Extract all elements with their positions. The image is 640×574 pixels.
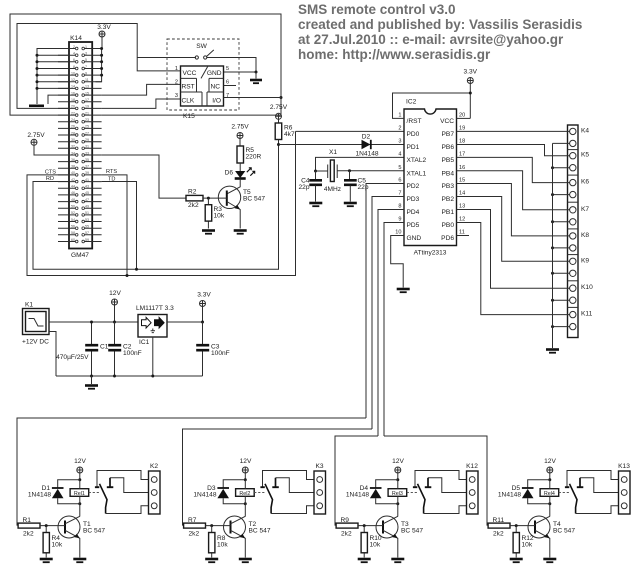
capacitor C1 470uF bbox=[56, 322, 109, 376]
svg-text:50: 50 bbox=[71, 205, 75, 209]
wire R6 down to PD1 row bbox=[278, 140, 280, 145]
svg-text:K13: K13 bbox=[618, 463, 630, 470]
svg-text:I/O: I/O bbox=[212, 98, 221, 105]
svg-text:51: 51 bbox=[85, 211, 89, 215]
connector strip K4-K11 bbox=[568, 125, 579, 338]
connector K10 bbox=[457, 210, 570, 289]
svg-text:11: 11 bbox=[85, 78, 89, 82]
wire relay feed block4 bbox=[384, 436, 487, 526]
svg-text:12V: 12V bbox=[109, 290, 121, 297]
svg-text:12V: 12V bbox=[544, 458, 556, 465]
diode D3 1N4148 (flyback) bbox=[223, 480, 245, 504]
svg-text:3: 3 bbox=[175, 93, 178, 99]
svg-text:K15: K15 bbox=[183, 113, 195, 120]
svg-text:R1: R1 bbox=[23, 517, 32, 524]
svg-text:PD5: PD5 bbox=[407, 222, 420, 229]
node pin1 bbox=[100, 47, 103, 50]
svg-text:CTS: CTS bbox=[45, 170, 56, 176]
svg-text:BC 547: BC 547 bbox=[553, 528, 575, 535]
wire XTAL1 to X1 right bbox=[337, 170, 404, 172]
svg-text:5: 5 bbox=[398, 165, 401, 171]
resistor R5 220R bbox=[237, 146, 262, 163]
resistor R1 2k2 bbox=[18, 523, 40, 528]
svg-text:14: 14 bbox=[71, 85, 75, 89]
connector K8 bbox=[457, 184, 570, 236]
svg-text:44: 44 bbox=[71, 185, 75, 189]
relay coil Rel1 bbox=[70, 489, 89, 497]
svg-text:21: 21 bbox=[85, 111, 89, 115]
svg-text:32: 32 bbox=[71, 145, 75, 149]
wire pin33 to R2 bbox=[102, 155, 186, 198]
ground (T3 emitter) bbox=[391, 558, 404, 561]
svg-text:K14: K14 bbox=[70, 35, 82, 42]
svg-text:3.3V: 3.3V bbox=[197, 292, 211, 299]
svg-text:GND: GND bbox=[407, 235, 422, 242]
svg-text:at 27.Jul.2010 :: e-mail: avrs: at 27.Jul.2010 :: e-mail: avrsite@yahoo.… bbox=[298, 32, 564, 47]
node C2 bottom bbox=[113, 375, 116, 378]
svg-text:X1: X1 bbox=[329, 149, 337, 156]
svg-text:470µF/25V: 470µF/25V bbox=[56, 354, 89, 361]
node RTS joins loop bbox=[126, 274, 129, 277]
svg-text:K1: K1 bbox=[25, 302, 33, 309]
resistor R2 2k2 bbox=[186, 188, 203, 209]
transistor T3 BC 547 bbox=[376, 516, 398, 538]
svg-text:R7: R7 bbox=[188, 517, 197, 524]
svg-text:3.3V: 3.3V bbox=[97, 24, 111, 31]
svg-text:PB2: PB2 bbox=[442, 196, 455, 203]
power symbol 3.3V (IC2 VCC) bbox=[464, 69, 478, 119]
connector K11 bbox=[457, 223, 570, 315]
svg-text:2k2: 2k2 bbox=[189, 531, 200, 538]
wire NC stub bbox=[224, 85, 237, 87]
node X1 right / C5 bbox=[348, 169, 351, 172]
svg-text:K3: K3 bbox=[315, 463, 323, 470]
relay driver block K3 bbox=[184, 458, 326, 562]
svg-text:37: 37 bbox=[85, 165, 89, 169]
wire TD (pin41) right bbox=[102, 182, 137, 270]
svg-text:100nF: 100nF bbox=[123, 350, 142, 357]
wire K1 ground side bbox=[49, 332, 56, 377]
svg-text:K8: K8 bbox=[581, 232, 589, 239]
node pin3 bbox=[100, 54, 103, 57]
ground (C5) bbox=[344, 202, 357, 205]
capacitor C5 22p bbox=[344, 171, 369, 202]
switch SW bbox=[195, 43, 214, 59]
svg-text:14: 14 bbox=[459, 191, 465, 197]
svg-text:VCC: VCC bbox=[440, 118, 454, 125]
svg-text:23: 23 bbox=[85, 118, 89, 122]
svg-text:Rel2: Rel2 bbox=[239, 491, 250, 497]
svg-text:31: 31 bbox=[85, 145, 89, 149]
svg-text:K9: K9 bbox=[581, 257, 589, 264]
svg-text:2k2: 2k2 bbox=[493, 531, 504, 538]
ground (T4 emitter) bbox=[543, 558, 556, 561]
svg-text:100nF: 100nF bbox=[211, 350, 230, 357]
svg-text:Rel1: Rel1 bbox=[74, 491, 85, 497]
node X1 left / C4 bbox=[314, 170, 317, 173]
wire I/O pin7 to border bbox=[224, 97, 282, 99]
node 3.3V bbox=[469, 92, 472, 95]
svg-text:PB1: PB1 bbox=[442, 209, 455, 216]
svg-text:10k: 10k bbox=[522, 542, 533, 549]
svg-text:47: 47 bbox=[85, 198, 89, 202]
svg-text:36: 36 bbox=[71, 158, 75, 162]
crystal X1 4MHz bbox=[324, 149, 341, 193]
wire 3.3V to pin1 /RST bbox=[393, 93, 471, 118]
svg-text:Rel3: Rel3 bbox=[392, 491, 403, 497]
ground (IC2) bbox=[397, 288, 410, 291]
svg-text:NC: NC bbox=[210, 84, 220, 91]
svg-text:1N4148: 1N4148 bbox=[28, 491, 51, 498]
wire PD6 stub bbox=[457, 235, 470, 237]
diode D5 1N4148 (flyback) bbox=[528, 480, 550, 504]
transistor T2 BC 547 bbox=[224, 516, 246, 538]
svg-text:1N4148: 1N4148 bbox=[193, 491, 216, 498]
node pin7 bbox=[100, 67, 103, 70]
svg-text:D2: D2 bbox=[362, 134, 371, 141]
svg-text:PB0: PB0 bbox=[442, 222, 455, 229]
node pin12 bbox=[36, 80, 39, 83]
svg-text:LM1117T 3.3: LM1117T 3.3 bbox=[136, 305, 174, 312]
svg-text:1N4148: 1N4148 bbox=[346, 491, 369, 498]
svg-text:6: 6 bbox=[398, 178, 401, 184]
svg-text:RST: RST bbox=[182, 84, 195, 91]
power symbol 3.3V out bbox=[197, 292, 211, 323]
relay driver block K12 bbox=[336, 458, 478, 562]
svg-text:1: 1 bbox=[175, 66, 178, 72]
resistor R4 10k bbox=[45, 526, 47, 558]
resistor R8 10k bbox=[211, 526, 213, 558]
svg-text:3: 3 bbox=[398, 139, 401, 145]
svg-text:22p: 22p bbox=[358, 184, 369, 191]
svg-text:9: 9 bbox=[398, 217, 401, 223]
svg-text:29: 29 bbox=[85, 138, 89, 142]
relay driver block K13 bbox=[488, 458, 630, 562]
node I/O joins border bbox=[280, 96, 283, 99]
svg-text:BC 547: BC 547 bbox=[243, 196, 265, 203]
ground (R4) bbox=[40, 558, 53, 561]
resistor R9 2k2 bbox=[336, 523, 358, 528]
node GND bbox=[255, 71, 258, 74]
svg-text:15: 15 bbox=[459, 178, 465, 184]
wire CTS (pin40) left bbox=[27, 131, 296, 275]
svg-text:8: 8 bbox=[73, 65, 75, 69]
K15 inner box bbox=[181, 66, 224, 106]
ground (T5 emitter) bbox=[234, 229, 247, 232]
svg-text:43: 43 bbox=[85, 185, 89, 189]
node C1 top bbox=[90, 321, 93, 324]
svg-text:PB4: PB4 bbox=[442, 170, 455, 177]
svg-text:BC 547: BC 547 bbox=[83, 528, 105, 535]
svg-text:home: http://www.serasidis.gr: home: http://www.serasidis.gr bbox=[298, 47, 491, 62]
svg-text:12V: 12V bbox=[392, 458, 404, 465]
svg-text:7: 7 bbox=[226, 93, 229, 99]
svg-text:IC2: IC2 bbox=[406, 99, 417, 106]
wire PD4 to relay driver bbox=[378, 210, 404, 437]
svg-text:17: 17 bbox=[459, 152, 465, 158]
node 12V rail bbox=[113, 321, 116, 324]
svg-text:19: 19 bbox=[459, 126, 465, 132]
wire PD0 row bbox=[296, 130, 405, 132]
svg-text:16: 16 bbox=[71, 91, 75, 95]
svg-text:3.3V: 3.3V bbox=[464, 69, 478, 76]
svg-text:53: 53 bbox=[85, 218, 89, 222]
node pin14 bbox=[36, 87, 39, 90]
ground (K15) bbox=[255, 72, 257, 79]
svg-text:BC 547: BC 547 bbox=[249, 528, 271, 535]
wire K15 GND pin5 bbox=[224, 71, 257, 73]
capacitor C2 100nF bbox=[108, 322, 142, 376]
svg-text:K7: K7 bbox=[581, 206, 589, 213]
node pin6 bbox=[36, 60, 39, 63]
wire IC1 center pin to ground rail bbox=[152, 337, 154, 376]
resistor R11 2k2 bbox=[488, 523, 510, 528]
connector K1 +12V DC bbox=[22, 302, 49, 346]
svg-text:CLK: CLK bbox=[182, 98, 195, 105]
svg-text:K12: K12 bbox=[466, 463, 478, 470]
wire 3.3V bus on K14 pins 1-11 bbox=[96, 49, 102, 82]
svg-text:10k: 10k bbox=[370, 542, 381, 549]
svg-text:2.75V: 2.75V bbox=[27, 132, 45, 139]
resistor R3 10k bbox=[205, 198, 225, 228]
svg-text:4: 4 bbox=[398, 152, 401, 158]
wire regulator out bbox=[167, 321, 203, 323]
svg-text:56: 56 bbox=[71, 225, 75, 229]
diode D1 1N4148 (flyback) bbox=[58, 480, 80, 504]
svg-text:13: 13 bbox=[85, 85, 89, 89]
svg-text:5: 5 bbox=[226, 66, 229, 72]
svg-text:2.75V: 2.75V bbox=[231, 124, 249, 131]
connector K6 bbox=[457, 157, 570, 182]
svg-text:15: 15 bbox=[85, 91, 89, 95]
ground (T1 emitter) bbox=[73, 558, 86, 561]
svg-text:XTAL2: XTAL2 bbox=[407, 157, 427, 164]
svg-text:4MHz: 4MHz bbox=[324, 186, 341, 193]
wire VCC pin20 bbox=[457, 117, 471, 119]
ground (R12) bbox=[510, 558, 523, 561]
relay contact (K2) bbox=[89, 492, 100, 494]
svg-text:5: 5 bbox=[85, 58, 87, 62]
svg-text:10k: 10k bbox=[52, 542, 63, 549]
wire K1 out to regulator bbox=[49, 321, 138, 323]
connector K5 bbox=[457, 145, 570, 156]
svg-text:PB5: PB5 bbox=[442, 157, 455, 164]
svg-text:RTS: RTS bbox=[106, 169, 117, 175]
svg-text:2: 2 bbox=[398, 126, 401, 132]
resistor R7 2k2 bbox=[184, 523, 206, 528]
node TD joins loop bbox=[135, 268, 138, 271]
wire 2.75V to pin34 bbox=[27, 132, 69, 155]
svg-text:10: 10 bbox=[395, 230, 401, 236]
svg-text:2: 2 bbox=[73, 45, 75, 49]
wire RD (pin42) left loop bbox=[33, 145, 279, 270]
svg-text:K6: K6 bbox=[581, 179, 589, 186]
wire relay feed block2 bbox=[183, 429, 373, 526]
title text block bbox=[298, 2, 582, 62]
transistor T5 BC547 bbox=[218, 186, 265, 228]
svg-text:57: 57 bbox=[85, 231, 89, 235]
svg-text:27: 27 bbox=[85, 131, 89, 135]
svg-text:SW: SW bbox=[196, 43, 207, 50]
power symbol 2.75V (above R5) bbox=[231, 124, 249, 147]
svg-text:2k2: 2k2 bbox=[23, 531, 34, 538]
svg-text:4: 4 bbox=[73, 52, 75, 56]
wire outer border loop (pin22 / I-O net) bbox=[10, 14, 281, 115]
svg-text:12: 12 bbox=[459, 217, 465, 223]
svg-text:PD2: PD2 bbox=[407, 183, 420, 190]
wire R5 to D6 bbox=[239, 163, 241, 171]
svg-text:34: 34 bbox=[71, 151, 75, 155]
relay contact (K12) bbox=[407, 492, 418, 494]
connector K14 (GM47 system connector) bbox=[58, 42, 102, 249]
node pin10 bbox=[36, 74, 39, 77]
svg-text:+12V DC: +12V DC bbox=[22, 339, 49, 346]
svg-text:PD0: PD0 bbox=[407, 131, 420, 138]
connector K9 bbox=[457, 197, 570, 262]
node IC1 gnd bbox=[151, 375, 154, 378]
ground (left bus) bbox=[36, 101, 38, 105]
svg-text:59: 59 bbox=[85, 238, 89, 242]
svg-text:BC 547: BC 547 bbox=[401, 528, 423, 535]
svg-text:10: 10 bbox=[71, 71, 75, 75]
svg-text:3: 3 bbox=[85, 52, 87, 56]
wire PD2 to relay driver bbox=[366, 184, 404, 419]
svg-text:52: 52 bbox=[71, 211, 75, 215]
svg-text:1N4148: 1N4148 bbox=[355, 151, 378, 158]
wire left ground bus K14 even pins 2-14 bbox=[37, 49, 69, 101]
wire bottom rail bbox=[56, 375, 203, 377]
svg-text:TD: TD bbox=[108, 176, 115, 182]
ground (R10) bbox=[358, 558, 371, 561]
svg-text:58: 58 bbox=[71, 231, 75, 235]
node pin8 bbox=[36, 67, 39, 70]
svg-text:GND: GND bbox=[207, 70, 222, 77]
svg-text:20: 20 bbox=[71, 105, 75, 109]
svg-text:19: 19 bbox=[85, 105, 89, 109]
svg-text:48: 48 bbox=[71, 198, 75, 202]
wire pin16 to ground bbox=[48, 95, 69, 104]
wire RTS (pin39) right bbox=[102, 175, 127, 276]
wire D6 to T5 collector bbox=[227, 179, 240, 194]
svg-text:220R: 220R bbox=[246, 154, 262, 161]
transistor T4 BC 547 bbox=[528, 516, 550, 538]
relay contact (K13) bbox=[559, 492, 570, 494]
svg-text:16: 16 bbox=[459, 165, 465, 171]
ground (T2 emitter) bbox=[239, 558, 252, 561]
svg-text:1: 1 bbox=[398, 113, 401, 119]
diode D4 1N4148 (flyback) bbox=[376, 480, 398, 504]
node pin9 bbox=[100, 74, 103, 77]
svg-text:GM47: GM47 bbox=[71, 252, 89, 259]
relay driver block K2 bbox=[18, 458, 160, 562]
svg-text:XTAL1: XTAL1 bbox=[407, 170, 427, 177]
power symbol 12V bbox=[109, 290, 121, 322]
svg-text:22: 22 bbox=[71, 111, 75, 115]
node base/R3 bbox=[207, 197, 210, 200]
wire relay feed block3 bbox=[335, 436, 378, 526]
svg-text:2.75V: 2.75V bbox=[270, 104, 288, 111]
svg-text:D6: D6 bbox=[225, 170, 234, 177]
capacitor C3 100nF bbox=[196, 322, 230, 376]
svg-text:33: 33 bbox=[85, 151, 89, 155]
svg-text:8: 8 bbox=[398, 204, 401, 210]
regulator IC1 LM1117T 3.3 bbox=[136, 305, 174, 346]
svg-text:R2: R2 bbox=[188, 188, 197, 195]
svg-text:/RST: /RST bbox=[407, 118, 422, 125]
svg-text:20: 20 bbox=[459, 113, 465, 119]
power symbol 2.75V (above R6) bbox=[270, 104, 288, 123]
svg-text:17: 17 bbox=[85, 98, 89, 102]
wire inner border loop (pin20 / SW net) bbox=[17, 24, 181, 109]
svg-text:54: 54 bbox=[71, 218, 75, 222]
svg-text:K11: K11 bbox=[581, 311, 593, 318]
resistor R12 10k bbox=[515, 526, 517, 558]
wire PD1 row through D2 bbox=[279, 144, 405, 146]
svg-text:24: 24 bbox=[71, 118, 75, 122]
svg-text:PD3: PD3 bbox=[407, 196, 420, 203]
relay coil Rel4 bbox=[540, 489, 559, 497]
svg-text:10k: 10k bbox=[214, 213, 225, 220]
svg-text:7: 7 bbox=[85, 65, 87, 69]
svg-text:6: 6 bbox=[226, 80, 229, 86]
wire common bus bbox=[552, 143, 554, 348]
wire PD3 to relay driver bbox=[372, 197, 404, 430]
resistor R10 10k bbox=[363, 526, 365, 558]
svg-text:PD6: PD6 bbox=[441, 235, 454, 242]
ground (power section) bbox=[91, 376, 93, 384]
svg-text:2: 2 bbox=[175, 80, 178, 86]
connector K4 bbox=[457, 130, 570, 132]
svg-text:11: 11 bbox=[459, 230, 465, 236]
transistor T1 BC 547 bbox=[58, 516, 80, 538]
op-amp IC2 ATtiny2313 box bbox=[395, 99, 465, 257]
ground (R8) bbox=[205, 558, 218, 561]
svg-text:C1: C1 bbox=[100, 344, 109, 351]
svg-text:VCC: VCC bbox=[183, 70, 197, 77]
svg-text:6: 6 bbox=[73, 58, 75, 62]
node pin5 bbox=[100, 60, 103, 63]
wire SW right to GND node bbox=[207, 58, 256, 73]
svg-text:4k7: 4k7 bbox=[284, 131, 295, 138]
power symbol 3.3V (top of K14) bbox=[97, 24, 111, 49]
svg-text:1N4148: 1N4148 bbox=[498, 491, 521, 498]
svg-text:18: 18 bbox=[71, 98, 75, 102]
svg-text:12: 12 bbox=[71, 78, 75, 82]
node R6/D2 bbox=[277, 143, 280, 146]
wire K15 CLK to pin19 bbox=[102, 99, 181, 108]
svg-text:K5: K5 bbox=[581, 152, 589, 159]
svg-text:RD: RD bbox=[46, 176, 54, 182]
svg-text:R11: R11 bbox=[493, 517, 505, 524]
svg-text:26: 26 bbox=[71, 125, 75, 129]
svg-text:41: 41 bbox=[85, 178, 89, 182]
ground (K strip common) bbox=[546, 348, 559, 351]
svg-text:22p: 22p bbox=[298, 184, 309, 191]
svg-text:38: 38 bbox=[71, 165, 75, 169]
svg-text:R9: R9 bbox=[341, 517, 350, 524]
ground (C4) bbox=[309, 202, 322, 205]
svg-text:49: 49 bbox=[85, 205, 89, 209]
svg-text:13: 13 bbox=[459, 204, 465, 210]
wire GND pin10 to ground bbox=[391, 236, 404, 288]
wire R2 to base bbox=[203, 197, 227, 199]
svg-text:46: 46 bbox=[71, 191, 75, 195]
svg-text:2k2: 2k2 bbox=[341, 531, 352, 538]
svg-text:PD1: PD1 bbox=[407, 144, 420, 151]
resistor R6 4k7 bbox=[275, 123, 295, 140]
svg-text:12V: 12V bbox=[240, 458, 252, 465]
svg-text:K10: K10 bbox=[581, 284, 593, 291]
